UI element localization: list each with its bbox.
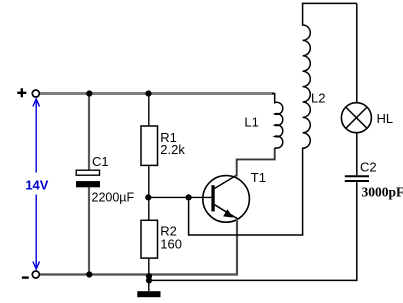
svg-text:C2: C2 — [360, 159, 377, 174]
svg-text:160: 160 — [160, 237, 182, 252]
capacitor C2 — [345, 159, 403, 199]
svg-text:L1: L1 — [244, 115, 258, 130]
wire C1 branch vertical — [88, 95, 90, 275]
transistor T1 — [203, 170, 266, 222]
inductor L1 — [244, 94, 282, 149]
lamp HL — [341, 103, 393, 133]
terminal - (negative) — [22, 271, 39, 278]
terminal + (positive) — [17, 88, 39, 97]
node divider / base — [145, 194, 151, 200]
svg-text:2.2k: 2.2k — [160, 142, 185, 157]
wire lamp to C2 — [356, 133, 358, 176]
ground — [137, 273, 160, 297]
svg-text:L2: L2 — [311, 91, 325, 106]
node top rail / R1 — [145, 90, 151, 96]
wire top supply rail — [40, 92, 274, 95]
wire emitter down to bottom rail — [236, 219, 238, 275]
node base / L2 link — [186, 194, 192, 200]
wire R1-R2 — [148, 165, 150, 220]
node bottom rail / C1 — [86, 271, 92, 277]
svg-text:T1: T1 — [251, 170, 266, 185]
wire C2 down and bottom link to ground node — [150, 182, 357, 280]
node top rail / C1 — [86, 90, 92, 96]
wire R2 bottom to ground — [148, 258, 150, 291]
svg-text:2200µF: 2200µF — [92, 191, 135, 205]
wire base (divider to transistor base) — [148, 196, 211, 198]
resistor R1 — [141, 95, 185, 166]
svg-text:14V: 14V — [25, 178, 48, 193]
resistor R2 — [141, 220, 182, 258]
svg-text:3000pF: 3000pF — [362, 184, 403, 199]
wire right side top (to lamp) — [356, 3, 358, 102]
inductor L2 + wire to base node — [189, 3, 357, 235]
capacitor C1 — [76, 154, 135, 205]
wire collector to L1 — [237, 148, 275, 177]
wire bottom supply rail — [40, 273, 239, 275]
svg-text:HL: HL — [377, 111, 394, 126]
svg-text:C1: C1 — [92, 154, 109, 169]
14V supply arrow (blue, double-headed) — [33, 99, 40, 269]
